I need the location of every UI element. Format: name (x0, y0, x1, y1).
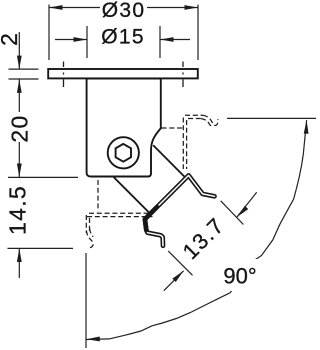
dim Ø30 extension line right (197, 5, 199, 61)
arrow dim14.5 bottom (17, 249, 22, 263)
dim Ø15 dimension tails (55, 39, 190, 41)
dashed top foot hook (201, 115, 218, 126)
dim 2 extension lines (9, 69, 39, 79)
dashed top leg double line (185, 115, 203, 118)
dash-dot screw hole centerline right (182, 62, 184, 88)
flange plate (48, 69, 198, 78)
arrow Ø15 right (160, 37, 174, 42)
dashed web double line (horizontal position) (183, 118, 186, 170)
dashed projection line vertical (97, 180, 99, 212)
dim Ø15 extension line left (86, 26, 88, 58)
dim 13.7 lower extension line (168, 251, 192, 275)
arrow Ø30 right (185, 5, 199, 10)
svg-text:90°: 90° (223, 264, 256, 289)
dashed left foot hook (86, 229, 93, 248)
hex socket screw head (108, 137, 139, 168)
dim 13.7 dimension tails (164, 192, 257, 290)
arrow dim13.7 lower (172, 269, 185, 282)
arrow Ø15 left (74, 37, 88, 42)
svg-text:Ø30: Ø30 (102, 0, 146, 22)
dim Ø30 dimension line (49, 7, 198, 9)
solid part outlines (48, 69, 198, 177)
arrow dim20 bottom (17, 164, 22, 178)
arrow arc bottom (86, 337, 100, 342)
arrow dim2 bottom / dim20 top (17, 79, 22, 93)
arrow dim13.7 upper (235, 206, 248, 219)
90deg vertical extension line (85, 253, 87, 348)
dashed phantom: arm rotated horizontal (162, 115, 218, 169)
dashed web double line (down position) (87, 213, 153, 216)
svg-text:20: 20 (6, 114, 32, 142)
svg-text:Ø15: Ø15 (101, 25, 145, 48)
svg-text:2: 2 (0, 32, 22, 46)
arrow arc top (304, 120, 309, 134)
web/leg solid merge zone (boss tangent meets web) (145, 207, 157, 230)
dashed projection line horizontal (162, 127, 183, 129)
dim 20 bottom extension line (cylinder bottom) (8, 176, 78, 178)
dim Ø30 extension line left (48, 5, 50, 61)
90deg horizontal extension line (227, 117, 316, 119)
90deg arc (86, 120, 306, 339)
dim 14.5 bottom extension line (8, 247, 74, 249)
dashed left leg double line (86, 215, 89, 233)
hex socket (116, 144, 131, 162)
junction diagonal lower (boss tangent) (114, 145, 185, 212)
dim Ø15 extension line right (159, 26, 161, 58)
dash-dot screw hole centerline left (64, 62, 184, 88)
svg-text:14.5: 14.5 (5, 185, 31, 235)
dashed phantom: arm rotated down (86, 180, 152, 248)
white mask behind 90deg label (217, 259, 264, 291)
arrow dim2 top (17, 56, 22, 70)
dim 13.7 upper extension line (221, 201, 244, 225)
dimension texts (0, 0, 257, 289)
cylinder body with boss (87, 79, 161, 177)
junction diagonal upper (boss tangent) (153, 145, 184, 176)
bracket arm channel profile (thick strip) (145, 175, 215, 245)
arrow Ø30 left (49, 5, 63, 10)
left vertical dimension line (2 / 20 / 14.5) (18, 32, 20, 278)
